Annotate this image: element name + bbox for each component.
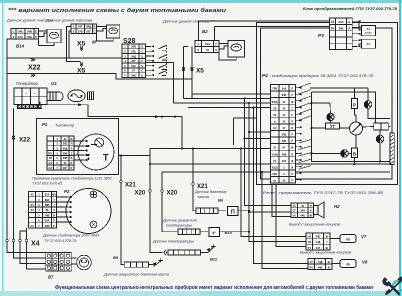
switch S28 connector [122, 44, 146, 78]
bracket A wire [150, 163, 271, 165]
right cyan edge line [399, 0, 401, 296]
speedo wires to gauge [57, 196, 72, 223]
wire X22 bus [7, 39, 11, 240]
B7 sensor circle [71, 257, 76, 259]
connector V7 [306, 233, 330, 250]
tachometer connector [47, 136, 74, 170]
temp sender box t [209, 228, 220, 237]
wire X20b drop temp sender [161, 172, 163, 189]
lamp fuel reserve [327, 113, 334, 120]
bus rail 3 to V8 [254, 108, 309, 264]
wire B2 to gauge3 [219, 43, 228, 45]
wire bus into P4 row1 [191, 94, 193, 99]
instrument cluster inner box [261, 28, 393, 179]
resistor R [352, 99, 358, 109]
temp warning sensor B11 [168, 250, 201, 255]
speedometer connector [29, 192, 57, 229]
fuel gauge 2 [107, 25, 120, 38]
S28 movable contacts [159, 45, 167, 75]
B box voltage limiter [352, 148, 358, 158]
wire X21b drop oil sender [192, 149, 194, 183]
S28 contact pins [146, 45, 155, 76]
instrument cluster outer box [257, 23, 398, 185]
speedometer gauge circle [66, 189, 111, 234]
X4 connector diamonds [6, 239, 9, 243]
S28 dashed link [166, 45, 168, 75]
wires B2 up to P3 [199, 21, 330, 40]
lamp fuel branch [312, 102, 331, 104]
bracket B wire [162, 171, 271, 173]
bus rail 1 to H2 [245, 99, 292, 206]
tachometer box P1 [37, 119, 119, 175]
V7 body [340, 235, 356, 243]
P3 pin arrows [352, 20, 360, 48]
feed to V7 row1 [241, 149, 306, 237]
circuit top wires [310, 87, 368, 89]
wire X22 horizontal [7, 57, 122, 59]
tach inner symbol [95, 138, 104, 147]
tachometer gauge circle [78, 134, 114, 170]
X4 bus verticals [7, 240, 46, 253]
wire bus into P4 row2 [184, 98, 271, 100]
connector B2 [195, 40, 219, 52]
P3 resistor box 1 [362, 25, 376, 35]
temp gauge with needle [350, 122, 363, 135]
wire generator output [39, 102, 41, 105]
relay frame wire [234, 117, 257, 119]
speedo top symbol [90, 191, 97, 198]
wire X5 horizontal [7, 74, 192, 80]
tach wires to gauge [74, 140, 87, 161]
wire relay feed [88, 105, 182, 117]
wire V8 feed [262, 172, 308, 269]
feed to V7 row3 [276, 185, 306, 247]
V8 body [340, 260, 356, 268]
connector B14 [11, 29, 39, 40]
wire B14 to gauge1 [39, 30, 48, 32]
UT box [326, 123, 340, 129]
left cyan edge line [2, 3, 4, 291]
connector B1 sender2 [71, 24, 97, 34]
oil pressure sender box P [228, 207, 239, 216]
fan diagonals from P4 [299, 83, 312, 169]
main left vertical [311, 92, 313, 162]
connector arrows X5a [80, 48, 83, 50]
top cyan bar [0, 0, 402, 3]
wire bus into P4 row3 [174, 102, 271, 104]
connector V8 [308, 259, 332, 270]
oil pressure sender B6 [196, 208, 218, 214]
wire sender2 to gauge2 [97, 26, 107, 28]
right connector hatched [390, 133, 394, 165]
wire charge lamp down [368, 108, 390, 118]
connector H2 [291, 203, 314, 218]
bottom bus lines in cluster [312, 161, 391, 163]
generator G1 block [14, 88, 47, 105]
generator rotor oval [68, 90, 85, 102]
fuel gauge 3 [228, 40, 245, 57]
wire V1 sensor feed [149, 156, 151, 190]
P3 resistor box 2 [362, 39, 376, 48]
wire sender2 loop [67, 27, 81, 62]
lamp temp warn [376, 135, 384, 143]
oil warning sensor B9 [124, 262, 148, 267]
twin box [374, 123, 381, 130]
bus rail 2 to H2/V7 [249, 103, 291, 212]
instrument cluster connector P4 [271, 85, 296, 184]
wire bus vertical left [173, 63, 175, 104]
stub into P4 row9 [245, 138, 271, 140]
wire bus into P4 row4 [188, 107, 271, 109]
generator terminal row [18, 105, 42, 109]
lamp charge [364, 101, 372, 109]
wire X21a drop [120, 156, 122, 180]
temperature sender B10 [178, 229, 200, 235]
fuel gauge 1 [47, 29, 61, 43]
speed sensor B7 [46, 253, 71, 271]
P4 pin stubs [296, 87, 302, 181]
wires B2 down [184, 45, 189, 47]
stub into P4 row8 [249, 131, 271, 133]
speedo bottom symbol [90, 221, 97, 228]
bottom cyan bar [0, 291, 402, 296]
wire L1 to cluster [150, 148, 271, 150]
converter block P3 [330, 18, 353, 49]
H2 speaker symbol [314, 206, 319, 215]
stub to H2 row3 [272, 185, 291, 217]
watermark crossed tools [383, 277, 402, 294]
generator brush box [88, 92, 94, 100]
switch contact B11 [208, 247, 214, 253]
wire generator down X22 [13, 109, 15, 241]
wire tachometer output [119, 149, 151, 156]
X5 arrows on bus [182, 69, 185, 71]
lamp oil warn [341, 150, 349, 158]
generator plug shape [47, 92, 63, 101]
